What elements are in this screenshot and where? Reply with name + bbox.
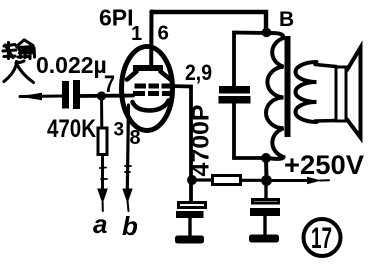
screen dropping resistor (horizontal) xyxy=(213,176,241,185)
svg-text:B: B xyxy=(279,8,294,31)
wire resistor to B+ node xyxy=(242,179,262,182)
speaker cone xyxy=(347,48,361,138)
wire capacitor 4700P bottom to B+ node xyxy=(234,103,266,158)
wire plate to output transformer (top run) xyxy=(152,12,267,33)
svg-text:470K: 470K xyxy=(47,115,96,143)
svg-text:17: 17 xyxy=(311,222,332,255)
terminal arrow a (points down) xyxy=(97,189,108,212)
transformer secondary winding xyxy=(296,62,317,122)
cathode/heater lead pins 3,8 down to terminal b xyxy=(125,105,131,190)
wire junction down to resistor 470K xyxy=(100,96,103,128)
plate (anode) lead pin 6 xyxy=(149,12,153,67)
svg-text:2,9: 2,9 xyxy=(185,60,212,85)
electrolytic capacitor C2 (screen bypass) xyxy=(176,203,206,236)
capacitor C 0.022μ plates xyxy=(62,80,80,109)
wire secondary top to speaker xyxy=(315,65,336,67)
wire junction to capacitor 4700P xyxy=(234,33,266,88)
cathode xyxy=(133,101,169,111)
svg-text:b: b xyxy=(122,211,138,241)
svg-text:7: 7 xyxy=(104,71,115,98)
wire screen node to resistor xyxy=(196,178,212,181)
beam forming plate right xyxy=(161,72,171,80)
svg-text:4700P: 4700P xyxy=(188,105,215,177)
label 输入 (input) hand-drawn characters xyxy=(3,40,35,83)
svg-text:a: a xyxy=(93,209,107,239)
wire primary bottom to B+ rail xyxy=(264,158,269,180)
transformer primary winding xyxy=(266,33,284,159)
input terminal arrow (points left) xyxy=(19,93,62,100)
ground (B+ filter) xyxy=(249,235,279,243)
screen grid g2 dashes (upper row, pins 2,9) xyxy=(135,84,171,89)
wire resistor to terminal a xyxy=(100,156,107,190)
svg-text:6: 6 xyxy=(158,22,169,45)
svg-text:0.022µ: 0.022µ xyxy=(36,52,107,78)
figure number 17 in circle xyxy=(304,219,341,256)
+250V supply arrow (points right) xyxy=(271,177,329,185)
ground (screen bypass) xyxy=(175,236,204,244)
resistor 470K (vertical) xyxy=(98,128,107,155)
svg-text:3: 3 xyxy=(114,120,125,141)
node: primary bottom junction dot xyxy=(261,153,271,163)
tube 6P1 envelope xyxy=(122,47,173,131)
svg-text:+250V: +250V xyxy=(284,150,364,180)
capacitor 4700P plates xyxy=(219,86,251,104)
wire screen grid pins 2,9 to screen node xyxy=(168,86,191,201)
node: grid junction dot xyxy=(97,91,106,100)
terminal arrow b (points down) xyxy=(122,189,132,212)
svg-text:8: 8 xyxy=(130,127,141,149)
anode plate bar xyxy=(133,65,163,71)
node: screen junction dot xyxy=(187,175,197,185)
transformer core xyxy=(285,36,291,137)
speaker driver xyxy=(336,67,346,121)
svg-text:6PI: 6PI xyxy=(99,5,134,31)
wire secondary bottom to speaker xyxy=(315,119,336,123)
control grid g1 dashes (lower row, pin 7) xyxy=(133,91,171,96)
svg-text:1: 1 xyxy=(131,23,142,45)
electrolytic capacitor C3 (B+ filter) xyxy=(250,186,280,234)
node: B+ junction dot xyxy=(261,175,272,186)
node: plate/primary junction dot xyxy=(262,28,272,38)
wire capacitor to grid pin 7 xyxy=(80,94,133,98)
beam forming plate left xyxy=(127,72,137,80)
